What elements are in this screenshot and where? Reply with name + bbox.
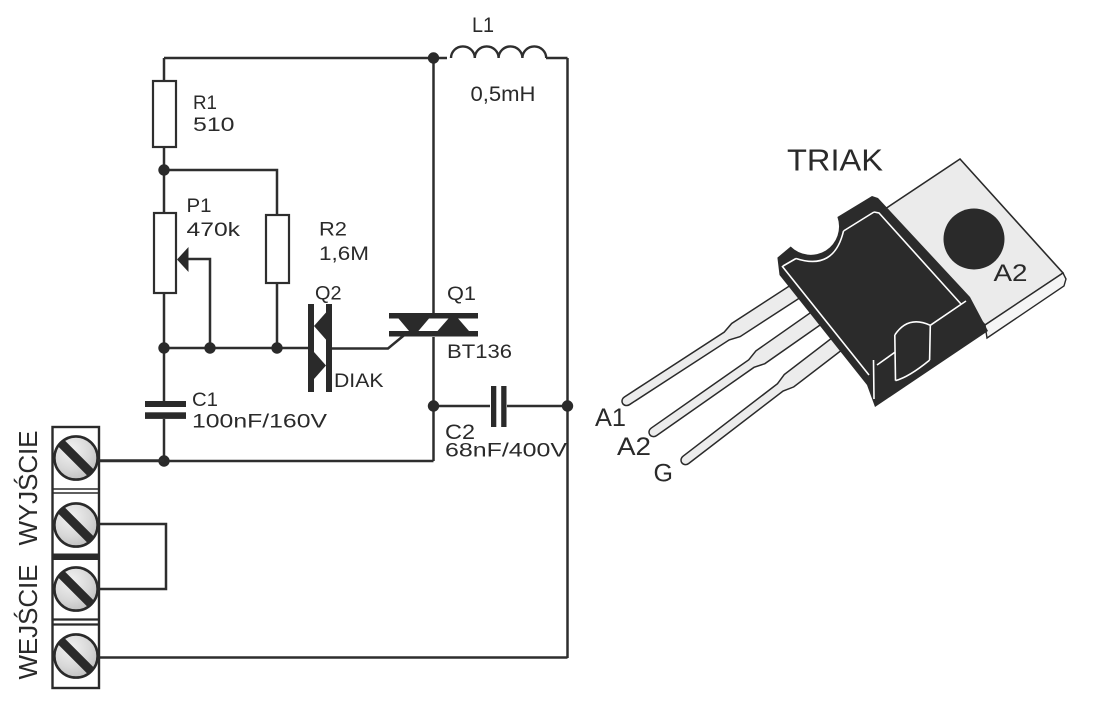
- svg-text:470k: 470k: [187, 220, 241, 241]
- svg-text:C1: C1: [192, 390, 218, 411]
- wire terminal1 lead: [97, 459, 164, 462]
- triac package leg A1: [618, 269, 824, 410]
- wire right rail upper: [566, 58, 569, 406]
- triac package tab hole: [944, 209, 1005, 270]
- junction node C2 left: [428, 400, 439, 411]
- resistor R2: [266, 215, 289, 283]
- resistor R1: [153, 81, 176, 147]
- svg-text:510: 510: [193, 115, 235, 136]
- svg-text:WYJŚCIE: WYJŚCIE: [13, 431, 43, 546]
- svg-text:WEJŚCIE: WEJŚCIE: [13, 565, 43, 680]
- wire P1 wiper: [188, 259, 210, 348]
- svg-text:Q2: Q2: [315, 284, 342, 305]
- wire C2 left lead: [434, 405, 491, 408]
- wire R2 bottom lead: [276, 283, 279, 348]
- triac package tab: [882, 159, 1063, 325]
- svg-text:P1: P1: [187, 196, 212, 217]
- wire center rail upper: [432, 58, 435, 313]
- wire L1 right lead: [546, 57, 568, 60]
- terminal block outline: [53, 427, 100, 688]
- wire C1 bottom lead: [163, 419, 166, 461]
- capacitor C2: [491, 386, 507, 427]
- junction node bus left: [158, 342, 169, 353]
- wire C2 node down: [432, 406, 435, 461]
- wire center rail lower: [432, 337, 435, 406]
- wire top horizontal: [164, 57, 447, 60]
- wire diac to gate: [332, 332, 408, 349]
- capacitor C1: [145, 401, 186, 419]
- terminal screw 1: [54, 436, 97, 479]
- inductor L1: [451, 46, 546, 58]
- junction node C2 right: [562, 400, 573, 411]
- svg-text:A2: A2: [617, 433, 651, 461]
- svg-text:BT136: BT136: [447, 342, 512, 363]
- svg-text:0,5mH: 0,5mH: [471, 83, 536, 106]
- wire P1 bottom lead: [163, 293, 166, 348]
- svg-text:1,6M: 1,6M: [319, 244, 369, 265]
- triac package body top edge line: [782, 212, 966, 399]
- wire terminal jumper 2-3: [97, 524, 166, 589]
- svg-text:68nF/400V: 68nF/400V: [445, 441, 567, 462]
- svg-text:L1: L1: [472, 14, 494, 37]
- svg-text:R1: R1: [193, 93, 217, 114]
- svg-text:R2: R2: [319, 220, 347, 241]
- wire right rail lower: [566, 406, 569, 658]
- junction node output: [158, 455, 169, 466]
- triac package body: [777, 196, 988, 407]
- svg-text:G: G: [654, 460, 673, 488]
- wire R1 bottom lead: [163, 147, 166, 170]
- wire bottom: [97, 656, 568, 659]
- wire C1 top lead: [163, 348, 166, 401]
- junction node bus R2: [271, 342, 282, 353]
- wire horizontal output node: [99, 460, 434, 463]
- terminal screw 3: [54, 567, 97, 610]
- junction node R1 bottom: [158, 164, 169, 175]
- triac package groove: [895, 322, 931, 381]
- terminal divider 3: [53, 618, 100, 620]
- triac package leg G: [677, 314, 873, 469]
- svg-text:TRIAK: TRIAK: [787, 143, 883, 178]
- junction node top rail: [428, 52, 439, 63]
- junction node bus wiper: [204, 342, 215, 353]
- terminal screw 2: [54, 503, 97, 546]
- wire node to R2: [164, 170, 277, 215]
- diac Q2: [308, 304, 332, 392]
- wire bottom bus: [164, 347, 308, 350]
- triac package tab thickness: [985, 273, 1066, 338]
- triac package leg A2: [645, 294, 846, 442]
- svg-text:DIAK: DIAK: [334, 371, 384, 392]
- wire R1 top lead: [163, 58, 166, 81]
- wire C2 right lead: [507, 405, 568, 408]
- terminal screw 4: [54, 634, 97, 677]
- potentiometer P1 wiper arrow: [177, 247, 189, 272]
- terminal divider 1: [53, 488, 100, 490]
- svg-text:100nF/160V: 100nF/160V: [192, 412, 327, 433]
- triac Q1: [389, 313, 478, 337]
- svg-text:A2: A2: [994, 260, 1028, 287]
- potentiometer P1: [154, 213, 176, 293]
- svg-text:A1: A1: [595, 404, 626, 432]
- terminal divider 2: [53, 554, 100, 561]
- svg-text:Q1: Q1: [447, 284, 476, 305]
- triac package notch inner arc: [796, 231, 844, 261]
- wire P1 top lead: [163, 170, 166, 213]
